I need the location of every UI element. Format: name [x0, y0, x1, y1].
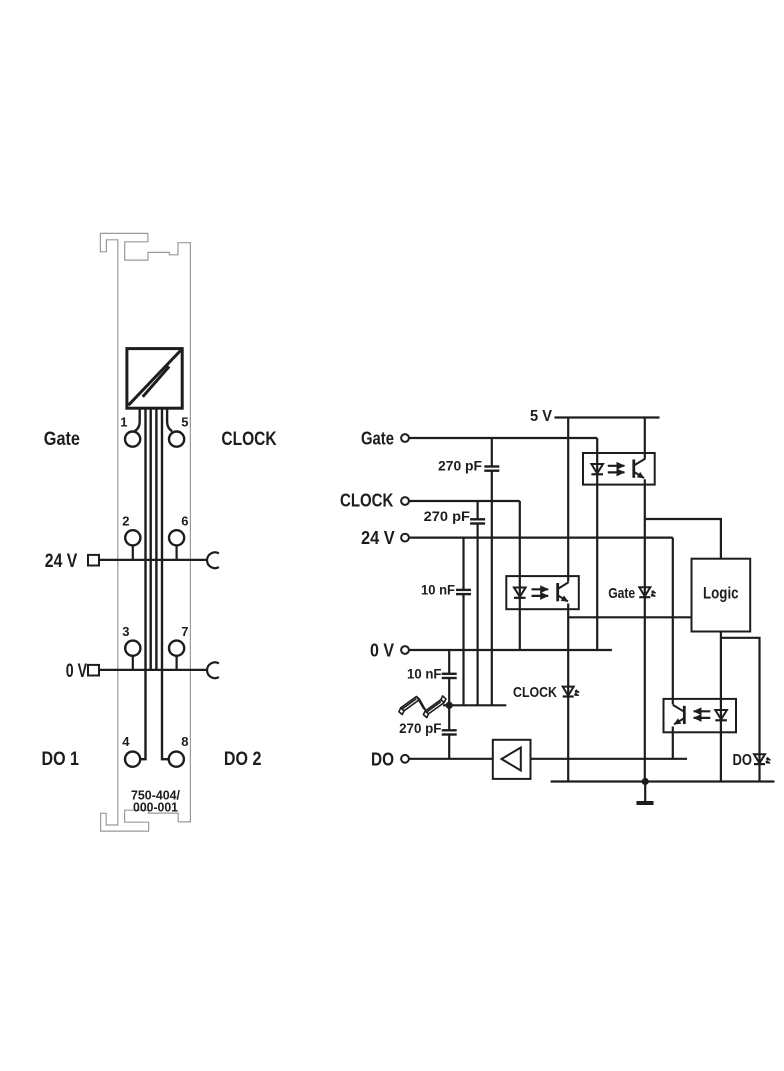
- svg-text:24 V: 24 V: [45, 551, 78, 572]
- 0V row line: [100, 669, 208, 671]
- 24V plug square: [88, 555, 99, 566]
- svg-text:4: 4: [122, 734, 130, 749]
- terminal 1: [125, 432, 140, 447]
- wire emitter branch to Logic: [568, 616, 691, 618]
- wire 5V rail: [555, 416, 660, 418]
- 0V plug square: [88, 665, 99, 676]
- wire CLOCK horizontal: [409, 500, 520, 502]
- svg-text:270 pF: 270 pF: [399, 720, 442, 736]
- Logic block: [692, 559, 751, 632]
- svg-text:3: 3: [122, 624, 129, 639]
- svg-text:DO: DO: [733, 752, 753, 769]
- svg-text:CLOCK: CLOCK: [340, 491, 393, 511]
- wire 0V horizontal: [409, 649, 612, 651]
- 24V row line: [100, 559, 208, 561]
- LED CLOCK indicator: [563, 687, 579, 697]
- wire DO horizontal right: [531, 758, 688, 760]
- svg-text:24 V: 24 V: [361, 528, 395, 548]
- wire bus w1 to terminal 4: [140, 408, 145, 759]
- DIN rail earth contact symbol: [399, 696, 446, 718]
- optocoupler U3 (DO, mirrored): [664, 699, 737, 732]
- svg-text:Gate: Gate: [361, 429, 394, 449]
- wire vertical 5V to opto U2 collector: [567, 418, 569, 582]
- terminal 6: [169, 530, 184, 545]
- wire pin to terminal 1: [135, 408, 140, 431]
- terminal 8: [169, 752, 184, 767]
- node 24V terminal: [401, 534, 409, 542]
- svg-text:000-001: 000-001: [133, 800, 178, 814]
- wire DO horizontal left: [409, 758, 493, 760]
- junction dot 0V/DO filter: [446, 702, 453, 709]
- wire CLOCK to opto U2 LED: [519, 501, 521, 650]
- amplifier A1: [493, 740, 531, 779]
- wire 5V to opto U1 collector: [644, 418, 646, 459]
- terminal 2: [125, 530, 140, 545]
- svg-text:CLOCK: CLOCK: [513, 684, 557, 701]
- svg-text:5: 5: [181, 415, 188, 430]
- wire Gate to opto U1 LED: [596, 438, 598, 650]
- terminal 3: [125, 641, 140, 656]
- wire rail to dot: [443, 704, 449, 706]
- wire Logic output to U3 LED anode: [720, 632, 722, 782]
- capacitor C5 270pF (DO): [442, 705, 457, 759]
- stub terminal 3 to 0V row: [132, 656, 134, 670]
- svg-text:CLOCK: CLOCK: [221, 429, 276, 450]
- svg-text:2: 2: [122, 514, 129, 529]
- node CLOCK terminal: [401, 497, 409, 505]
- wire opto U1 emitter down (through Gate LED) to ground dot: [644, 479, 646, 781]
- wire bottom rail: [551, 780, 775, 782]
- capacitor C3 10nF (24V): [456, 538, 471, 706]
- wire bus w4 to terminal 8: [162, 408, 169, 759]
- svg-text:1: 1: [120, 415, 127, 430]
- wire 24V down to opto U3 collector: [672, 538, 674, 705]
- terminal 5: [169, 432, 184, 447]
- svg-text:6: 6: [181, 514, 188, 529]
- node Gate terminal: [401, 434, 409, 442]
- svg-text:Gate: Gate: [44, 429, 80, 450]
- wire U1 emitter branch to Logic top: [645, 519, 721, 559]
- LED Gate indicator: [639, 587, 655, 597]
- 0V socket arc: [207, 662, 219, 678]
- svg-text:DO: DO: [371, 749, 394, 769]
- 24V socket arc: [207, 552, 219, 568]
- svg-text:10 nF: 10 nF: [407, 665, 442, 681]
- svg-text:0 V: 0 V: [370, 641, 394, 661]
- module body outline: [100, 233, 190, 831]
- node DO terminal: [401, 755, 409, 763]
- node 0V terminal: [401, 646, 409, 654]
- ground: [644, 782, 646, 802]
- wire U3 emitter down to DO: [672, 727, 674, 759]
- svg-text:270 pF: 270 pF: [438, 458, 482, 474]
- svg-text:DO 1: DO 1: [42, 749, 80, 770]
- svg-text:Logic: Logic: [703, 585, 739, 603]
- capacitor C1 270pF (Gate): [484, 438, 499, 705]
- svg-text:7: 7: [181, 624, 188, 639]
- wire Gate horizontal: [409, 437, 597, 439]
- wire opto U2 emitter down to bottom rail (through CLOCK LED): [567, 604, 569, 782]
- svg-text:10 nF: 10 nF: [421, 581, 455, 597]
- optocoupler U2 (CLOCK): [506, 576, 579, 609]
- data contact box: [127, 349, 182, 409]
- stub terminal 2 to 24V row: [132, 545, 134, 560]
- svg-text:8: 8: [181, 734, 188, 749]
- svg-text:5 V: 5 V: [530, 408, 552, 425]
- wire bus w3: [155, 408, 157, 670]
- capacitor C4 10nF (0V): [442, 650, 457, 705]
- wire collect line y705: [449, 704, 506, 706]
- optocoupler U1 (Gate): [583, 453, 655, 485]
- svg-text:DO 2: DO 2: [224, 749, 262, 770]
- LED DO indicator: [754, 754, 770, 764]
- stub terminal 7 to 0V row: [176, 656, 178, 670]
- capacitor C2 270pF (CLOCK): [470, 501, 485, 705]
- wire pin to terminal 5: [167, 408, 172, 431]
- wire 24V horizontal: [409, 536, 673, 538]
- stub terminal 6 to 24V row: [176, 545, 178, 560]
- terminal 7: [169, 641, 184, 656]
- svg-text:Gate: Gate: [608, 585, 635, 602]
- svg-text:0 V: 0 V: [66, 661, 87, 682]
- junction dot bottom rail: [642, 778, 649, 785]
- svg-text:270 pF: 270 pF: [424, 508, 471, 524]
- wire bus w2: [149, 408, 151, 670]
- terminal 4: [125, 752, 140, 767]
- wire Logic branch to DO LED: [721, 638, 760, 782]
